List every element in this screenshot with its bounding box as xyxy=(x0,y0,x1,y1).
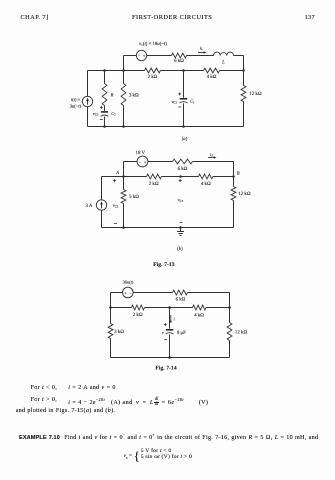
example 7.10 paragraph xyxy=(19,432,318,441)
wire circuit-a right edge lower xyxy=(243,102,245,127)
resistor 12 kOhm (a) xyxy=(241,86,246,102)
wire fig14 main row seg2 xyxy=(145,307,193,309)
node junction R top xyxy=(103,69,106,72)
capacitor C1 xyxy=(180,99,188,103)
svg-text:6 kΩ: 6 kΩ xyxy=(178,166,188,172)
wire fig14 right edge lower xyxy=(229,341,231,358)
wire circuit-a 3k branch top xyxy=(123,71,125,84)
wire circuit-b right edge lower xyxy=(233,201,235,228)
svg-text:Fig. 7-14: Fig. 7-14 xyxy=(155,365,177,371)
capacitor C2 polarity plus xyxy=(100,106,103,109)
wire circuit-a top branch seg2 xyxy=(147,55,172,57)
wire circuit-a left edge lower xyxy=(87,107,89,127)
svg-text:2 kΩ: 2 kΩ xyxy=(148,74,158,80)
wire circuit-b top branch seg2 xyxy=(148,161,173,163)
capacitor polarity minus xyxy=(164,338,167,340)
capacitor C1 polarity plus xyxy=(178,92,181,95)
svg-text:vC2: vC2 xyxy=(93,111,99,117)
wire circuit-a right edge upper xyxy=(243,56,245,86)
wire circuit-a top branch seg4 xyxy=(234,55,244,57)
wire circuit-a main row seg1 xyxy=(88,70,145,72)
node node A xyxy=(122,175,125,178)
wire fig14 main row seg3 xyxy=(206,307,230,309)
svg-text:(a): (a) xyxy=(182,136,188,142)
ground symbol xyxy=(177,228,184,236)
node junction capacitor bottom (fig14) xyxy=(168,356,171,359)
svg-text:vC1: vC1 xyxy=(178,197,184,203)
wire fig14 left edge upper xyxy=(110,293,112,324)
voltage source 18 V xyxy=(137,156,148,167)
capacitor 9 uF xyxy=(166,330,174,334)
wire fig14 right edge upper xyxy=(229,293,231,323)
svg-text:i(t) =: i(t) = xyxy=(71,97,81,102)
wire circuit-a 3k branch bottom xyxy=(123,106,125,127)
wire circuit-a top branch seg3 xyxy=(187,55,214,57)
node junction ground node xyxy=(179,226,182,229)
current source i(t)=3u(-t) xyxy=(82,96,92,106)
svg-text:6 kΩ: 6 kΩ xyxy=(176,297,186,303)
wire circuit-a R-C2 link xyxy=(104,106,106,111)
wire fig14 top branch seg1 xyxy=(111,292,123,294)
voltage vC2 polarity minus xyxy=(114,223,117,225)
resistor 5 kOhm xyxy=(121,190,126,204)
wire fig14 top branch seg2 xyxy=(133,292,172,294)
capacitor polarity plus xyxy=(164,323,167,326)
node junction 5k bottom xyxy=(122,226,125,229)
voltage vC1 polarity plus xyxy=(179,179,182,182)
svg-text:18 V: 18 V xyxy=(136,150,146,156)
wire fig14 left edge lower xyxy=(110,339,112,358)
svg-text:4 kΩ: 4 kΩ xyxy=(207,74,217,80)
current arrow i (fig14) xyxy=(170,315,176,324)
capacitor C2 xyxy=(101,112,109,116)
svg-text:iL: iL xyxy=(200,45,203,51)
wire fig14 capacitor branch top xyxy=(169,308,171,329)
wire circuit-a C2 bottom xyxy=(104,117,106,127)
resistor R xyxy=(102,84,107,106)
wire circuit-a main row seg2 xyxy=(161,70,204,72)
resistor 6 kOhm (fig14) xyxy=(173,290,188,295)
svg-text:9 μF: 9 μF xyxy=(177,330,186,336)
svg-text:i: i xyxy=(174,317,176,322)
wire circuit-a C1 branch bottom xyxy=(183,103,185,126)
wire fig14 top branch seg3 xyxy=(188,292,230,294)
wire circuit-b main row seg1 xyxy=(102,176,147,178)
resistor 6 kOhm (a) xyxy=(172,53,187,58)
svg-text:v1(t) = 18u(−t): v1(t) = 18u(−t) xyxy=(139,41,167,47)
wire fig14 capacitor branch bottom xyxy=(169,335,171,358)
resistor 2 kOhm (b) xyxy=(147,174,162,179)
current arrow i2 xyxy=(208,152,217,159)
voltage vC2 polarity plus xyxy=(113,179,116,182)
wire circuit-a R branch top xyxy=(104,71,106,84)
svg-text:vC2: vC2 xyxy=(113,203,119,209)
wire circuit-a bottom row xyxy=(88,126,244,128)
wire circuit-b stub at node A xyxy=(123,162,125,177)
svg-text:L: L xyxy=(221,60,225,66)
wire circuit-b right edge upper xyxy=(233,162,235,187)
svg-text:5 kΩ: 5 kΩ xyxy=(129,194,139,200)
voltage source v1(t)=18u(-t) xyxy=(136,50,146,60)
resistor 4 kOhm (fig14) xyxy=(193,305,207,310)
svg-text:3 kΩ: 3 kΩ xyxy=(114,329,124,335)
svg-text:C1: C1 xyxy=(190,99,195,105)
svg-text:+: + xyxy=(144,159,147,164)
svg-text:A: A xyxy=(115,170,119,175)
node node B xyxy=(232,175,235,178)
capacitor C1 polarity minus xyxy=(178,106,181,108)
node junction row right (fig14) xyxy=(228,306,231,309)
resistor 6 kOhm (b) xyxy=(173,159,193,164)
svg-text:3u(−t): 3u(−t) xyxy=(70,103,82,108)
node node vC1 (b) xyxy=(179,175,182,178)
resistor 4 kOhm (b) xyxy=(199,174,214,179)
current arrow iL xyxy=(198,45,207,53)
svg-text:−: − xyxy=(139,159,142,164)
node junction C1 bottom xyxy=(182,125,185,128)
current source value label i(t) = 3u(-t) xyxy=(70,97,82,108)
svg-text:3 kΩ: 3 kΩ xyxy=(129,92,139,98)
node junction C2 bottom xyxy=(103,125,106,128)
svg-text:−: − xyxy=(129,290,132,295)
current source 3 A xyxy=(96,200,106,210)
capacitor C2 polarity minus xyxy=(100,118,103,120)
resistor 2 kOhm (fig14) xyxy=(132,305,145,310)
svg-text:(b): (b) xyxy=(177,246,183,252)
svg-text:+: + xyxy=(143,53,146,58)
resistor 3 kOhm (fig14) xyxy=(108,324,113,339)
wire circuit-b main row seg2 xyxy=(162,176,199,178)
wire circuit-b left edge lower xyxy=(101,210,103,227)
voltage vC1 polarity minus xyxy=(180,222,183,224)
wire fig14 main row seg1 xyxy=(111,307,132,309)
svg-text:Fig. 7-13: Fig. 7-13 xyxy=(153,262,175,268)
node junction 3k top xyxy=(122,69,125,72)
node junction row left (fig14) xyxy=(109,306,112,309)
wire circuit-b top branch seg3 xyxy=(193,161,234,163)
wire circuit-a top branch seg1 xyxy=(124,55,137,57)
svg-text:6 kΩ: 6 kΩ xyxy=(174,58,184,64)
svg-text:2 kΩ: 2 kΩ xyxy=(149,181,159,187)
resistor 12 kOhm (b) xyxy=(231,187,236,201)
svg-text:R: R xyxy=(110,92,114,98)
node junction C1 top xyxy=(182,69,185,72)
svg-text:v: v xyxy=(162,330,164,335)
wire circuit-b main row seg3 xyxy=(213,176,234,178)
wire fig14 bottom row xyxy=(111,357,230,359)
resistor 12 kOhm (fig14) xyxy=(227,323,232,341)
svg-text:+: + xyxy=(124,290,127,295)
resistor 2 kOhm (a) xyxy=(145,68,161,73)
svg-text:4 kΩ: 4 kΩ xyxy=(201,181,211,187)
wire circuit-a left edge upper xyxy=(87,71,89,97)
resistor 3 kOhm (a) xyxy=(121,84,126,106)
svg-text:2 kΩ: 2 kΩ xyxy=(133,312,143,318)
wire circuit-b bottom row xyxy=(102,227,234,229)
wire circuit-a main row seg3 xyxy=(220,70,244,72)
svg-text:−: − xyxy=(138,53,141,58)
wire circuit-a stub to source branch xyxy=(123,56,125,71)
wire circuit-a C1 branch top xyxy=(183,71,185,98)
svg-text:3 A: 3 A xyxy=(86,203,93,209)
wire circuit-b 5k branch top xyxy=(123,177,125,190)
wire circuit-b top branch seg1 xyxy=(124,161,138,163)
svg-text:C2: C2 xyxy=(111,111,116,117)
svg-text:36u(t): 36u(t) xyxy=(123,279,134,284)
svg-text:12 kΩ: 12 kΩ xyxy=(235,329,248,335)
resistor 4 kOhm (a) xyxy=(204,68,220,73)
body text paragraph xyxy=(31,385,57,391)
svg-text:4 kΩ: 4 kΩ xyxy=(194,312,204,318)
node junction capacitor top (fig14) xyxy=(168,306,171,309)
wire circuit-b left edge upper xyxy=(101,177,103,200)
svg-text:i2: i2 xyxy=(210,152,213,158)
svg-text:12 kΩ: 12 kΩ xyxy=(238,191,251,197)
node junction right row (a) xyxy=(242,69,245,72)
node junction 3k bottom xyxy=(122,125,125,128)
svg-text:B: B xyxy=(237,171,240,176)
inductor L xyxy=(214,52,234,55)
wire circuit-b 5k branch bottom xyxy=(123,204,125,228)
svg-text:12 kΩ: 12 kΩ xyxy=(249,91,262,97)
svg-text:vC1: vC1 xyxy=(171,99,177,105)
voltage source 36u(t) xyxy=(123,287,134,298)
page header xyxy=(21,14,49,21)
